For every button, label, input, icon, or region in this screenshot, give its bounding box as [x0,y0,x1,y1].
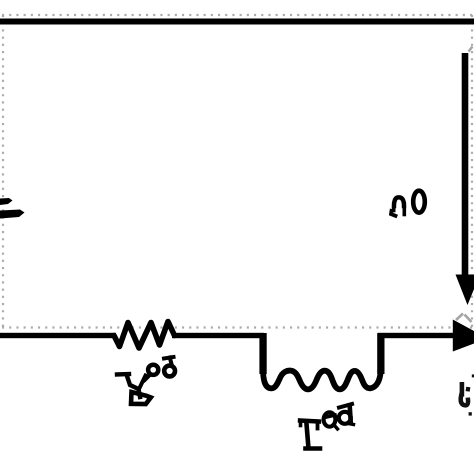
source V1 (battery plates, cut at left edge) [0,198,25,219]
gray nick at arrow u0 top [469,47,473,52]
wire bottom right [378,333,455,338]
gray smudge above arrow i1 [456,314,472,323]
dotted figure border (decorative) [2,15,473,331]
wire top [0,19,474,25]
label R^ed [117,357,175,404]
wire bottom mid [172,333,264,338]
inductor L_ed [259,333,384,389]
arrow u0 (voltage, pointing down) [456,53,474,305]
resistor R_ed [114,322,175,349]
label L^ed [300,404,354,449]
label u0 [391,191,425,216]
arrow i1 (current, right, tip clipped) [453,320,474,352]
label i1 (tiny, right edge) [461,374,474,415]
wire bottom left [0,333,116,338]
